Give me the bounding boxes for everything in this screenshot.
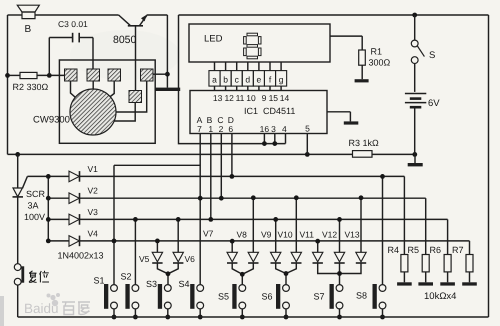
svg-text:6: 6	[228, 124, 233, 134]
svg-text:V13: V13	[345, 230, 360, 240]
svg-text:5: 5	[305, 124, 310, 134]
svg-text:a: a	[212, 74, 217, 84]
svg-text:V12: V12	[322, 230, 337, 240]
svg-text:LED: LED	[204, 34, 223, 45]
svg-text:V2: V2	[88, 186, 99, 196]
svg-text:4: 4	[282, 124, 287, 134]
svg-text:S8: S8	[356, 291, 367, 301]
svg-text:R1: R1	[371, 47, 383, 57]
svg-text:11: 11	[236, 93, 245, 103]
svg-text:S: S	[429, 50, 435, 61]
svg-text:15: 15	[269, 93, 279, 103]
svg-text:d: d	[245, 74, 250, 84]
svg-text:V10: V10	[278, 230, 293, 240]
svg-text:b: b	[223, 74, 228, 84]
svg-text:12: 12	[224, 93, 234, 103]
svg-text:300Ω: 300Ω	[369, 58, 391, 68]
svg-text:V8: V8	[237, 230, 248, 240]
svg-text:V7: V7	[203, 229, 214, 239]
svg-text:R3 1kΩ: R3 1kΩ	[349, 138, 380, 148]
svg-text:V4: V4	[88, 228, 99, 238]
svg-text:3A: 3A	[28, 201, 39, 211]
svg-text:SCR: SCR	[26, 189, 46, 199]
svg-text:R7: R7	[452, 245, 464, 255]
svg-text:C3 0.01: C3 0.01	[58, 19, 88, 29]
svg-text:10kΩx4: 10kΩx4	[424, 291, 456, 302]
svg-text:IC1: IC1	[244, 106, 258, 116]
svg-text:R5: R5	[408, 245, 420, 255]
svg-text:c: c	[235, 74, 240, 84]
svg-text:1N4002x13: 1N4002x13	[58, 251, 104, 261]
svg-text:B: B	[25, 24, 32, 35]
svg-text:13: 13	[213, 93, 223, 103]
svg-text:S6: S6	[262, 292, 273, 302]
svg-text:100V: 100V	[24, 212, 45, 222]
svg-text:R2 330Ω: R2 330Ω	[13, 82, 49, 92]
svg-text:8050: 8050	[113, 34, 137, 46]
svg-text:2: 2	[219, 124, 224, 134]
svg-text:g: g	[279, 74, 284, 84]
svg-text:S5: S5	[218, 292, 229, 302]
svg-text:V11: V11	[300, 230, 315, 240]
svg-text:V6: V6	[185, 254, 196, 264]
svg-text:V5: V5	[139, 254, 150, 264]
svg-text:6V: 6V	[428, 98, 440, 109]
svg-text:V9: V9	[261, 230, 272, 240]
svg-text:V3: V3	[88, 207, 99, 217]
svg-text:7: 7	[197, 124, 202, 134]
svg-text:1: 1	[208, 124, 213, 134]
svg-text:S7: S7	[314, 292, 325, 302]
svg-text:R4: R4	[388, 245, 400, 255]
svg-text:16: 16	[260, 124, 270, 134]
svg-text:e: e	[257, 74, 262, 84]
svg-text:R6: R6	[430, 245, 442, 255]
svg-text:CW9300: CW9300	[33, 115, 70, 126]
svg-text:14: 14	[280, 93, 290, 103]
svg-text:3: 3	[271, 124, 276, 134]
svg-text:9: 9	[262, 93, 267, 103]
svg-text:S1: S1	[94, 276, 105, 286]
svg-text:V1: V1	[88, 164, 99, 174]
svg-text:S3: S3	[146, 279, 157, 289]
svg-text:S4: S4	[179, 279, 190, 289]
svg-text:CD4511: CD4511	[263, 106, 295, 116]
svg-text:S2: S2	[121, 272, 132, 282]
svg-text:10: 10	[246, 93, 256, 103]
